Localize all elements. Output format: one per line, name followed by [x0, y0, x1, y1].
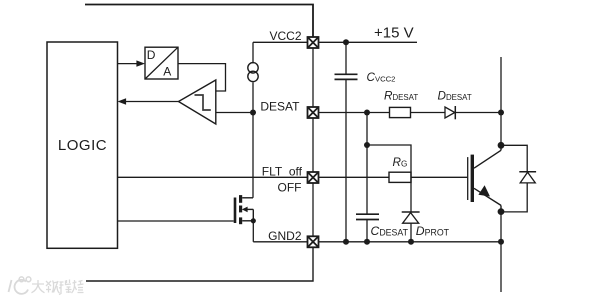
wire pin column FLT to GND2 [312, 183, 314, 236]
svg-text:D: D [147, 48, 156, 62]
node collector junction [498, 142, 505, 149]
wire pin column VCC2 to DESAT [312, 48, 314, 107]
wire D/A output to comparator input [178, 64, 226, 91]
wire FLT pin to RG [319, 176, 390, 178]
wire RDESAT to DDESAT [411, 112, 446, 114]
node DESAT internal junction [250, 110, 256, 116]
wire +15V rail [319, 41, 418, 43]
wire collector rail top [500, 57, 502, 145]
wire CVCC2 to GND2 rail [345, 79, 347, 241]
wire pin column DESAT to FLT [312, 118, 314, 172]
svg-text:VCC2: VCC2 [269, 29, 301, 43]
resistor RDESAT [390, 107, 411, 117]
node GND2 DPROT junction [408, 239, 414, 245]
watermark logo [9, 277, 31, 294]
watermark text glyphs [32, 280, 84, 295]
svg-text:DPROT: DPROT [416, 224, 450, 238]
wire comparator lower input to DESAT node [216, 112, 253, 114]
wire comparator output to LOGIC with arrow [118, 98, 179, 104]
transistor Q1 DESAT discharge MOSFET [235, 195, 253, 224]
diode DDESAT [445, 106, 455, 119]
node emitter junction [498, 208, 505, 215]
node DESAT external junction [364, 110, 370, 116]
wire VCC2 pin internal [253, 41, 308, 43]
svg-text:+15 V: +15 V [374, 25, 414, 42]
op-amp comparator U2 [179, 80, 216, 124]
pin FLT_off X-box [308, 172, 319, 183]
node GND2 emitter junction [498, 239, 504, 245]
wire DDESAT to collector rail [455, 112, 501, 114]
capacitor CVCC2 [335, 42, 358, 79]
svg-text:DDESAT: DDESAT [438, 90, 472, 103]
node collector rail DESAT junction [498, 110, 504, 116]
svg-text:DESAT: DESAT [260, 100, 300, 114]
svg-text:LOGIC: LOGIC [58, 137, 107, 154]
diode D freewheel [519, 172, 536, 183]
pin GND2 X-box [308, 236, 319, 247]
resistor RG [389, 172, 411, 182]
wire LOGIC to D/A with arrow [118, 60, 146, 66]
wire VCC2 internal vertical [252, 42, 254, 63]
wire LOGIC to MOSFET gate [118, 220, 234, 222]
wire GND2 internal [253, 241, 307, 243]
capacitor CDESAT [356, 214, 379, 242]
svg-text:GND2: GND2 [268, 229, 302, 243]
wire freewheel diode return [501, 183, 527, 212]
wire freewheel diode branch [501, 145, 527, 172]
node CDESAT DPROT junction [364, 142, 370, 148]
wire CDESAT branch from DESAT node [366, 113, 368, 215]
svg-text:CDESAT: CDESAT [371, 224, 409, 238]
wire current source to DESAT node and MOSFET drain [252, 82, 254, 198]
wire emitter rail bottom [500, 212, 502, 292]
node GND2 CDESAT junction [364, 239, 370, 245]
D/A converter block [145, 47, 178, 79]
svg-text:CVCC2: CVCC2 [367, 71, 396, 84]
pin VCC2 X-box [308, 37, 319, 48]
transistor Q2 IGBT [468, 145, 501, 211]
current source I-charge [248, 63, 258, 82]
svg-text:RG: RG [393, 156, 408, 169]
LOGIC block U1 [47, 42, 118, 248]
wire chip outline bottom edge [86, 247, 313, 281]
wire GND2 rail [319, 241, 502, 243]
wire FLT_off from LOGIC to pin [118, 176, 308, 178]
diode DPROT [402, 212, 420, 242]
svg-text:RDESAT: RDESAT [384, 90, 418, 103]
pin DESAT X-box [308, 107, 319, 118]
svg-text:FLT_off: FLT_off [262, 164, 303, 178]
node GND2 CVCC2 junction [343, 239, 349, 245]
wire MOSFET source to GND2 [252, 221, 254, 242]
wire DESAT pin to collector rail [319, 112, 390, 114]
wire junction to DPROT [367, 145, 411, 212]
node +15V junction [343, 39, 349, 45]
svg-text:OFF: OFF [278, 181, 302, 195]
wire RG to IGBT gate [411, 176, 467, 178]
wire chip outline top edge [85, 5, 313, 38]
svg-text:A: A [163, 65, 171, 79]
node MOSFET source junction [251, 218, 256, 223]
